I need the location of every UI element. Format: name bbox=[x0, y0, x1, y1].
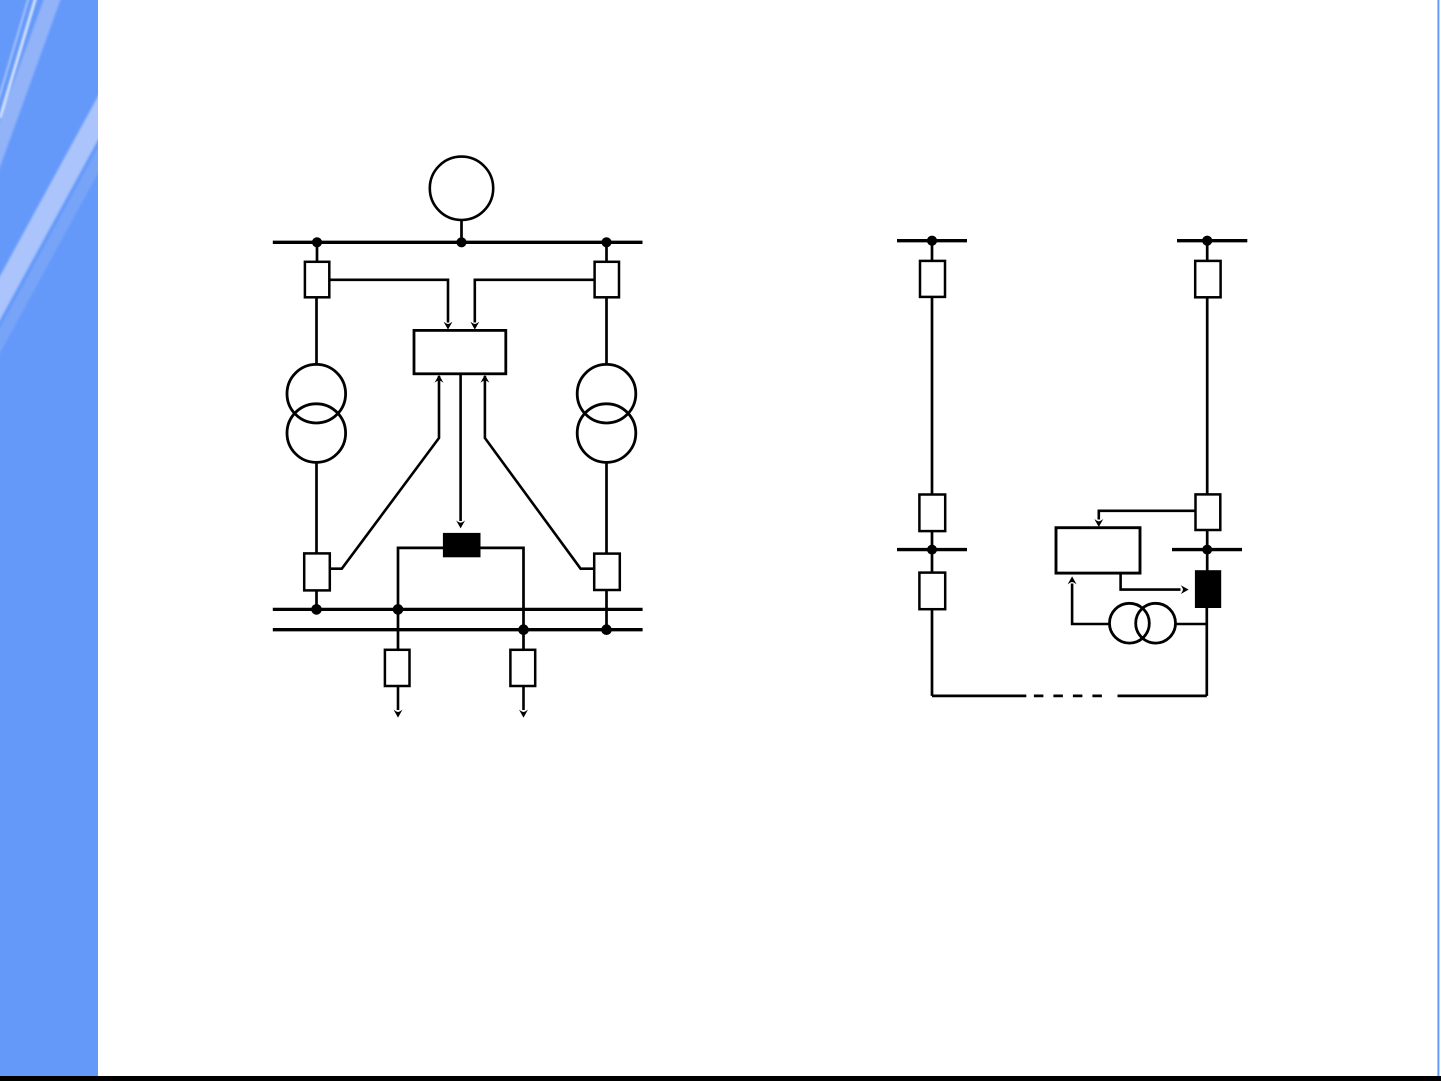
wire upper bus to breaker CB2 bbox=[605, 242, 608, 263]
node busbar2 right bbox=[601, 624, 612, 635]
node top right bbox=[1202, 236, 1212, 246]
wire T1 to breaker CB3 bbox=[315, 462, 318, 554]
wire bus to breaker CB7 bbox=[931, 241, 934, 262]
breaker CB5 feeder1 bbox=[385, 650, 410, 686]
node middle right bbox=[1202, 545, 1212, 555]
current transformer CT1 bbox=[1110, 603, 1176, 643]
wire CB3 to busbar1 bbox=[315, 590, 318, 609]
bus stub middle right bbox=[1172, 548, 1242, 551]
breaker CB4 bbox=[594, 554, 620, 590]
node upper bus left bbox=[312, 237, 322, 247]
wire generator to upper busbar bbox=[460, 220, 463, 242]
breaker CB10 bbox=[1195, 261, 1220, 297]
wire CB2 to transformer T2 bbox=[605, 297, 608, 365]
bus stub top right bbox=[1177, 239, 1247, 242]
wire CB1 current input to relay bbox=[329, 280, 448, 323]
wire CT sense into relay bbox=[1072, 584, 1110, 625]
transformer T1 bbox=[287, 364, 346, 462]
sidebar bbox=[0, 0, 134, 1081]
arrowhead down at lockout bbox=[456, 520, 465, 528]
transformer T2 bbox=[577, 364, 636, 462]
wire lockout to busbars bbox=[398, 548, 524, 650]
wire CB9 down bbox=[931, 609, 934, 696]
arrowhead into relay top bbox=[1094, 519, 1103, 527]
node busbar2 feeder2 bbox=[518, 624, 529, 635]
tie line dashed section bbox=[1034, 695, 1102, 698]
breaker CB2 bbox=[595, 262, 619, 298]
generator G1 bbox=[430, 157, 493, 220]
tie line solid right bbox=[1118, 695, 1207, 698]
breaker CB1 bbox=[305, 262, 329, 298]
arrowhead up into relay bottom left bbox=[435, 375, 444, 383]
wire CB4 to busbar2 bbox=[605, 590, 608, 630]
arrowhead into relay top right bbox=[470, 322, 479, 330]
right edge blue border bbox=[1437, 0, 1439, 1076]
lockout black box right bbox=[1195, 570, 1221, 608]
node busbar1 feeder1 bbox=[393, 604, 404, 615]
breaker CB3 bbox=[304, 553, 330, 590]
wire CB1 to transformer T1 bbox=[315, 297, 318, 365]
trip wire relay to black box bbox=[1121, 573, 1181, 590]
lockout relay (black box) bbox=[443, 533, 481, 557]
wire left CT sense into relay bbox=[330, 376, 440, 569]
bus stub top left bbox=[897, 239, 967, 242]
tie line solid left bbox=[932, 695, 1026, 698]
arrowhead up into relay bottom bbox=[1068, 576, 1077, 584]
node busbar1 left bbox=[311, 604, 322, 615]
feeder1 arrowhead bbox=[394, 710, 403, 718]
wire CB2 current input to relay bbox=[475, 280, 595, 323]
wire bus to breaker CB10 bbox=[1206, 241, 1209, 262]
wire line section right bbox=[1206, 297, 1209, 495]
relay U1 bbox=[414, 330, 506, 373]
wire upper bus to breaker CB1 bbox=[316, 242, 319, 263]
wire CT to right leg bbox=[1175, 623, 1206, 626]
breaker CB11 bbox=[1196, 494, 1221, 530]
arrowhead right into black box bbox=[1181, 585, 1189, 594]
busbar 2 bbox=[273, 628, 643, 631]
arrowhead into relay top left bbox=[444, 322, 453, 330]
node upper bus center bbox=[456, 237, 466, 247]
wire CB8 through bus to CB9 bbox=[931, 531, 934, 573]
bottom black bar bbox=[0, 1076, 1441, 1081]
feeder1 wire bbox=[397, 686, 400, 710]
feeder2 arrowhead bbox=[519, 710, 528, 718]
breaker CB9 bbox=[919, 573, 945, 610]
breaker CB7 bbox=[920, 261, 945, 297]
wire right CT sense into relay bbox=[485, 376, 594, 569]
node top left bbox=[927, 236, 937, 246]
arrowhead up into relay bottom right bbox=[480, 375, 489, 383]
trip wire relay to lockout bbox=[459, 374, 462, 521]
breaker CB8 bbox=[919, 495, 945, 532]
node middle left bbox=[927, 545, 937, 555]
breaker CB6 feeder2 bbox=[510, 650, 535, 686]
wire right leg lower bbox=[1205, 608, 1208, 696]
wire T2 to breaker CB4 bbox=[605, 462, 608, 554]
node upper bus right bbox=[601, 237, 611, 247]
upper busbar bbox=[273, 241, 643, 244]
relay U2 bbox=[1056, 528, 1140, 573]
bus stub middle left bbox=[897, 548, 967, 551]
feeder2 wire bbox=[522, 686, 525, 710]
wire CB11 current input to relay bbox=[1099, 511, 1196, 520]
wire line section left bbox=[931, 297, 934, 495]
busbar 1 bbox=[273, 608, 643, 611]
wire CB11 through bus to black box bbox=[1206, 530, 1209, 571]
